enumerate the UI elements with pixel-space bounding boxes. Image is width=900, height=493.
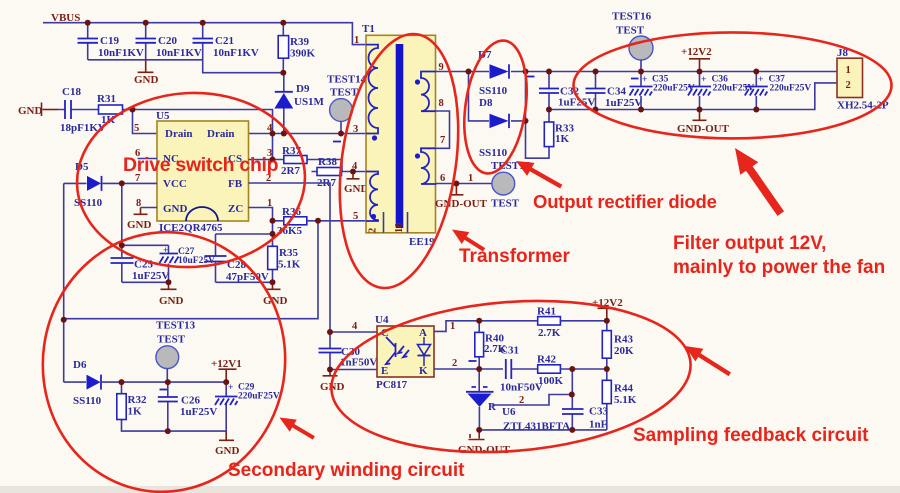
ground under R35 C28 [263, 282, 288, 307]
pin 2 lead [383, 212, 385, 233]
capacitor C20 [136, 23, 202, 60]
svg-text:5.1K: 5.1K [278, 259, 301, 271]
wire U4 pin3 line [330, 369, 377, 371]
svg-text:E: E [381, 365, 388, 377]
capacitor C26 [158, 382, 218, 431]
svg-text:8: 8 [439, 98, 444, 109]
test point TEST13 [156, 320, 196, 383]
svg-text:R41: R41 [537, 306, 556, 318]
svg-text:ZTL431BFTA: ZTL431BFTA [503, 421, 570, 433]
wire D8 parallel loop [469, 72, 526, 121]
resistor R42 [537, 354, 564, 388]
op-amp U5 drive switch chip ICE2QR4765 [156, 110, 249, 234]
capacitor C28 [205, 234, 269, 283]
svg-text:GND-OUT: GND-OUT [435, 198, 488, 210]
wire ZC line [249, 208, 273, 221]
svg-text:TEST: TEST [491, 198, 520, 210]
svg-text:GND-OUT: GND-OUT [677, 123, 730, 135]
capacitor C35 electrolytic [630, 72, 695, 110]
ground under C30 [320, 370, 345, 394]
wire U4 pin2 line [434, 368, 503, 370]
svg-text:1nF: 1nF [589, 419, 608, 431]
wire CS vertical [272, 134, 274, 160]
svg-text:US1M: US1M [294, 96, 325, 108]
svg-text:5.1K: 5.1K [614, 394, 637, 406]
diode D8 [479, 97, 509, 159]
svg-text:10nF1KV: 10nF1KV [98, 47, 144, 59]
svg-text:R44: R44 [614, 383, 633, 395]
svg-text:5: 5 [134, 123, 139, 134]
diode D9 [274, 73, 324, 134]
svg-text:C34: C34 [607, 86, 626, 98]
annotation ellipse Sampling feedback [326, 288, 696, 464]
svg-text:390K: 390K [290, 48, 316, 60]
svg-text:8: 8 [136, 198, 141, 209]
capacitor C25 [111, 245, 170, 282]
svg-text:A: A [419, 327, 427, 339]
annotation ellipse Transformer [325, 26, 474, 295]
capacitor C19 [78, 23, 144, 60]
svg-text:K: K [419, 365, 428, 377]
svg-text:47pF50V: 47pF50V [226, 271, 269, 283]
svg-text:GND: GND [215, 445, 240, 457]
svg-text:U5: U5 [156, 110, 170, 122]
svg-text:Secondary winding circuit: Secondary winding circuit [228, 460, 465, 481]
svg-text:+: + [758, 75, 763, 85]
svg-text:220uF25V: 220uF25V [713, 84, 755, 94]
resistor R36 [277, 206, 307, 237]
svg-text:SS110: SS110 [73, 395, 102, 407]
resistor R43 [602, 321, 634, 369]
svg-text:R39: R39 [290, 36, 309, 48]
svg-text:7: 7 [440, 135, 445, 146]
wire aux winding link T1 pin5 to left rail [64, 221, 318, 319]
resistor R40 [475, 321, 507, 369]
wire VBUS rail [43, 23, 366, 45]
core bar [396, 44, 404, 228]
svg-text:+: + [642, 75, 647, 85]
svg-text:R43: R43 [614, 334, 633, 346]
capacitor C33 [562, 406, 608, 431]
svg-text:T1: T1 [362, 23, 375, 35]
wire left aux rail [63, 183, 65, 382]
annotation circle Secondary winding [26, 216, 302, 493]
svg-text:1K: 1K [555, 133, 570, 145]
svg-text:D9: D9 [296, 83, 310, 95]
svg-text:Filter output 12V,: Filter output 12V, [673, 233, 826, 254]
svg-text:U6: U6 [502, 406, 516, 418]
wire FB line [249, 183, 331, 332]
wire R42 line [560, 368, 606, 370]
svg-text:+: + [701, 75, 706, 85]
capacitor C34 [586, 72, 643, 110]
capacitor C37 electrolytic [745, 72, 812, 110]
wire U4 pin4 line [330, 331, 377, 333]
svg-text:C33: C33 [589, 406, 608, 418]
svg-text:FB: FB [228, 178, 243, 190]
svg-text:2: 2 [519, 395, 524, 406]
ground under C20 [134, 60, 159, 86]
diode D5 [64, 161, 157, 209]
annotation ellipse Filter output [574, 32, 892, 138]
capacitor C30 [319, 332, 378, 370]
test point TEST15 [491, 160, 531, 210]
annotation arrow to sampling [681, 340, 734, 381]
resistor R32 [117, 382, 168, 431]
svg-text:C21: C21 [215, 35, 234, 47]
resistor R44 [602, 369, 636, 430]
svg-text:20K: 20K [614, 345, 634, 357]
svg-text:1: 1 [846, 65, 851, 76]
transformer T1 [362, 23, 436, 248]
svg-text:100K: 100K [538, 375, 564, 387]
wire cap bottom rail [88, 60, 284, 73]
capacitor C32 [527, 72, 596, 110]
diode D7 [478, 49, 509, 97]
wire C33 feedback vertical [571, 369, 573, 430]
capacitor C31 [500, 345, 543, 394]
wire drain line U5 pin4 to T1 pin3 [249, 133, 367, 135]
annotation arrow to secondary [276, 411, 318, 443]
annotation arrow to transformer [448, 224, 488, 256]
ground GND-OUT under pin6 [435, 184, 488, 211]
resistor R41 [537, 306, 561, 340]
wire T1 pin9 output rail [436, 71, 838, 73]
wire U4 pin1 line [434, 321, 538, 332]
svg-text:R31: R31 [97, 93, 116, 105]
wire U6 ref pin jog [492, 395, 572, 406]
shunt regulator U6 ZTL431BFTA [466, 369, 570, 433]
resistor R35 [268, 246, 301, 270]
annotation arrow to filter [726, 142, 790, 220]
aux winding 4-5 [366, 172, 378, 222]
svg-text:Sampling feedback circuit: Sampling feedback circuit [633, 425, 869, 446]
pin 10 lead [407, 212, 409, 233]
svg-text:Drain: Drain [207, 128, 235, 140]
wire sampling bottom rail [479, 429, 607, 431]
svg-text:U4: U4 [375, 314, 389, 326]
wire R41 to +12V2 node [560, 320, 606, 322]
capacitor C21 [193, 23, 259, 60]
svg-text:+: + [228, 383, 233, 393]
svg-text:TEST: TEST [616, 25, 645, 37]
primary winding 1-3 [366, 45, 378, 134]
annotation ellipse Drive switch chip [73, 87, 310, 273]
capacitor C36 electrolytic [688, 72, 754, 110]
svg-text:1K: 1K [101, 114, 116, 126]
svg-text:2: 2 [368, 228, 379, 233]
svg-text:GND: GND [344, 183, 369, 195]
svg-text:TEST: TEST [157, 334, 186, 346]
secondary winding 9-8 [421, 72, 436, 112]
svg-text:+12V1: +12V1 [211, 358, 242, 370]
svg-text:2.7K: 2.7K [538, 327, 561, 339]
svg-text:2: 2 [452, 358, 457, 369]
annotation ellipse Output rectifier diode [456, 36, 534, 177]
annotation arrow to output rectifier [512, 154, 565, 193]
svg-text:VCC: VCC [163, 178, 187, 190]
svg-text:R32: R32 [128, 394, 147, 406]
svg-text:SS110: SS110 [479, 85, 508, 97]
optocoupler U4 PC817 [375, 314, 434, 391]
secondary winding 7-6 [421, 148, 436, 184]
power flag +12V1 [211, 358, 242, 382]
svg-text:1uF25V: 1uF25V [180, 406, 217, 418]
ground GND-OUT filter [677, 110, 730, 136]
svg-text:GND-OUT: GND-OUT [458, 444, 511, 456]
svg-text:1uF25V: 1uF25V [605, 97, 642, 109]
svg-text:10nF50V: 10nF50V [500, 382, 543, 394]
svg-text:10: 10 [394, 223, 405, 234]
capacitor C27 electrolytic [160, 245, 216, 282]
svg-text:6: 6 [440, 173, 445, 184]
svg-text:SS110: SS110 [479, 147, 508, 159]
svg-text:GND: GND [159, 295, 184, 307]
svg-text:Transformer: Transformer [459, 246, 570, 267]
svg-text:C18: C18 [62, 86, 81, 98]
svg-text:C31: C31 [500, 345, 519, 357]
wire GND-OUT lower rail to J8 pin2 [549, 83, 837, 110]
wire R36 line to T1 pin5 [273, 220, 367, 222]
svg-text:TEST13: TEST13 [156, 320, 196, 332]
wire D6 output line [122, 381, 228, 383]
svg-text:GND: GND [163, 203, 188, 215]
svg-text:1uF25V: 1uF25V [132, 270, 169, 282]
svg-text:10nF1KV: 10nF1KV [156, 47, 202, 59]
ground GND-OUT under U6 [458, 430, 511, 456]
wire U5 pin5 drain jog [133, 110, 158, 134]
svg-text:2: 2 [846, 80, 851, 91]
svg-text:220uF25V: 220uF25V [653, 84, 695, 94]
svg-text:1: 1 [468, 173, 473, 184]
svg-text:ZC: ZC [228, 203, 243, 215]
svg-text:D8: D8 [479, 97, 493, 109]
svg-text:+: + [163, 246, 168, 256]
node GND input flag [18, 103, 58, 118]
wire T1 pin6 to TEST15 [436, 183, 492, 185]
svg-text:PC817: PC817 [376, 379, 408, 391]
wire ZC net vertical [272, 221, 274, 282]
svg-text:Drain: Drain [165, 128, 193, 140]
svg-text:R38: R38 [318, 156, 337, 168]
svg-text:D6: D6 [73, 359, 87, 371]
ground T1 pin4 [344, 172, 369, 196]
wire C28 loop rails [216, 234, 273, 282]
svg-text:5: 5 [353, 211, 358, 222]
resistor R31 [97, 93, 123, 126]
resistor R37 [281, 145, 307, 177]
svg-text:Output rectifier diode: Output rectifier diode [533, 191, 717, 212]
wire R31 to clamp node [123, 110, 273, 134]
diode D6 [64, 359, 122, 407]
connector J8 [837, 47, 889, 112]
ground U5 pin8 [127, 208, 157, 232]
svg-text:4: 4 [352, 321, 358, 332]
svg-text:GND: GND [134, 74, 159, 86]
svg-text:R35: R35 [279, 247, 298, 259]
svg-text:TEST: TEST [330, 87, 359, 99]
svg-text:1K: 1K [128, 406, 143, 418]
wire U5 pin6 NC stub [138, 158, 158, 160]
svg-text:1: 1 [450, 321, 455, 332]
wire T1 pin8 to pin7 series link [436, 111, 450, 148]
power flag +12V2 sampling [592, 297, 623, 321]
capacitor C29 electrolytic [168, 382, 280, 431]
svg-text:220uF25V: 220uF25V [770, 84, 812, 94]
svg-text:R: R [488, 401, 497, 413]
resistor R33 [544, 110, 574, 147]
svg-text:1: 1 [354, 35, 359, 46]
svg-text:Drive switch chip: Drive switch chip [123, 154, 279, 176]
wire C25 C27 loop rails [122, 245, 169, 282]
wire VCC cap drop [121, 183, 123, 245]
svg-text:C20: C20 [158, 35, 177, 47]
test point TEST14 [327, 74, 367, 142]
resistor R38 [317, 156, 342, 189]
svg-text:10nF1KV: 10nF1KV [213, 47, 259, 59]
test point TEST16 [612, 11, 653, 72]
svg-text:GND: GND [127, 219, 152, 231]
svg-text:GND: GND [18, 105, 43, 117]
svg-text:C26: C26 [181, 395, 200, 407]
svg-text:+12V2: +12V2 [681, 46, 712, 58]
svg-text:220uF25V: 220uF25V [238, 392, 280, 402]
wire CS line [249, 160, 343, 172]
wire R33 bleeder link [526, 121, 550, 158]
svg-text:2R7: 2R7 [281, 165, 300, 177]
svg-text:3: 3 [353, 124, 358, 135]
svg-text:R42: R42 [537, 354, 556, 366]
svg-text:C19: C19 [100, 35, 119, 47]
resistor R39 [278, 23, 315, 73]
svg-text:mainly to power the fan: mainly to power the fan [673, 257, 885, 278]
ground under C29 [215, 431, 240, 457]
capacitor C18 [58, 86, 106, 134]
svg-text:TEST16: TEST16 [612, 11, 652, 23]
wire R38 line to T1 pin4 [312, 171, 367, 173]
ground under C27 [159, 282, 184, 307]
power flag +12V2 filter [681, 46, 712, 72]
